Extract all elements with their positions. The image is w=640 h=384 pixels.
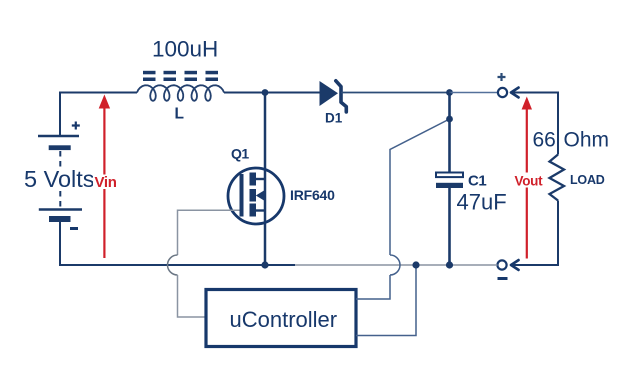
ground rail right thin segment <box>295 264 498 266</box>
arrow into plus terminal <box>511 88 519 98</box>
feedback wire A hop over ground rail <box>390 255 400 275</box>
svg-text:D1: D1 <box>325 111 343 126</box>
mosfet Q1 circle <box>228 168 284 224</box>
label Vin <box>93 174 117 191</box>
mosfet body arrow <box>256 191 265 201</box>
capacitor bottom wire <box>448 188 451 265</box>
inductor core dashes row 1 <box>143 71 218 75</box>
mosfet drain connection <box>256 178 266 180</box>
svg-text:L: L <box>175 106 184 123</box>
gate wire below hop into controller <box>178 275 207 317</box>
wire diode to output node <box>341 92 450 94</box>
svg-text:C1: C1 <box>468 173 486 190</box>
uController box <box>206 290 356 347</box>
controller feedback wire A horizontal <box>356 275 390 299</box>
label uController <box>230 307 338 332</box>
battery plus sign <box>72 122 80 130</box>
label C1 <box>468 173 486 190</box>
mosfet channel segment middle <box>250 189 257 202</box>
feedback wire A vertical and diagonal to cap node <box>390 119 450 255</box>
label 5 Volts <box>22 166 95 192</box>
label IRF640 <box>290 187 335 203</box>
mosfet channel segment top <box>250 173 257 186</box>
mosfet source connection <box>256 209 266 211</box>
label 66 Ohm <box>533 129 610 152</box>
svg-text:uController: uController <box>230 307 338 332</box>
battery bottom thick bar <box>49 216 71 222</box>
node A junction dot (drain node) <box>262 89 269 96</box>
gate wire hop over ground rail <box>168 255 178 275</box>
svg-text:IRF640: IRF640 <box>290 187 335 203</box>
battery top plate <box>38 135 79 138</box>
label 47uF <box>457 190 507 215</box>
minus sign at output terminal <box>498 277 508 280</box>
mosfet gate bar <box>240 174 244 217</box>
svg-text:Ohm: Ohm <box>564 129 610 152</box>
junction dot cap feedback node <box>446 116 453 123</box>
label LOAD <box>570 173 605 187</box>
mosfet drain vertical wire <box>264 93 267 266</box>
ground junction dot capacitor <box>446 261 453 268</box>
wire load top <box>513 93 558 155</box>
battery dashed middle line <box>59 151 61 208</box>
capacitor C1 top plate <box>436 173 463 178</box>
battery top thick bar <box>49 145 71 150</box>
capacitor C1 bottom plate <box>436 183 463 188</box>
node B junction dot (diode cathode node) <box>446 89 453 96</box>
svg-text:Vout: Vout <box>515 174 544 189</box>
mosfet channel segment bottom <box>250 204 257 217</box>
minus output terminal <box>497 260 506 269</box>
label Q1 <box>231 146 249 162</box>
controller wire B to ground <box>356 265 416 336</box>
svg-text:LOAD: LOAD <box>570 173 605 187</box>
battery bottom plate <box>39 208 82 211</box>
ground rail left segment <box>168 264 295 266</box>
wire battery to ground rail <box>60 222 168 265</box>
diode D1 triangle anode <box>320 81 339 106</box>
label 100uH <box>152 37 218 62</box>
svg-text:100uH: 100uH <box>152 37 218 62</box>
gate wire to controller <box>178 210 240 255</box>
svg-text:Vin: Vin <box>95 174 117 191</box>
ground junction dot wire B <box>412 261 419 268</box>
plus output terminal <box>498 88 507 97</box>
label L <box>175 106 184 123</box>
diode D1 curved cathode bar <box>336 81 347 112</box>
inductor L coil <box>137 85 224 101</box>
plus sign at output terminal <box>498 73 506 81</box>
battery minus sign <box>70 227 78 230</box>
svg-text:Q1: Q1 <box>231 146 249 162</box>
svg-text:47uF: 47uF <box>457 190 507 215</box>
red arrow Vin <box>99 95 110 259</box>
capacitor top wire <box>448 93 451 173</box>
wire node B to plus terminal <box>450 92 498 94</box>
label Vout <box>513 173 544 189</box>
red arrow Vout <box>522 97 532 259</box>
label D1 <box>325 111 343 126</box>
svg-text:5 Volts: 5 Volts <box>24 166 95 192</box>
svg-text:66: 66 <box>533 129 556 152</box>
arrow into minus terminal <box>511 260 519 270</box>
resistor LOAD zigzag <box>550 155 565 201</box>
ground junction dot at mosfet source <box>261 261 268 268</box>
wire load bottom <box>513 201 558 266</box>
inductor core dashes row 2 <box>143 78 218 82</box>
wire top-left from battery to inductor <box>60 93 137 137</box>
wire inductor to diode <box>224 92 320 94</box>
